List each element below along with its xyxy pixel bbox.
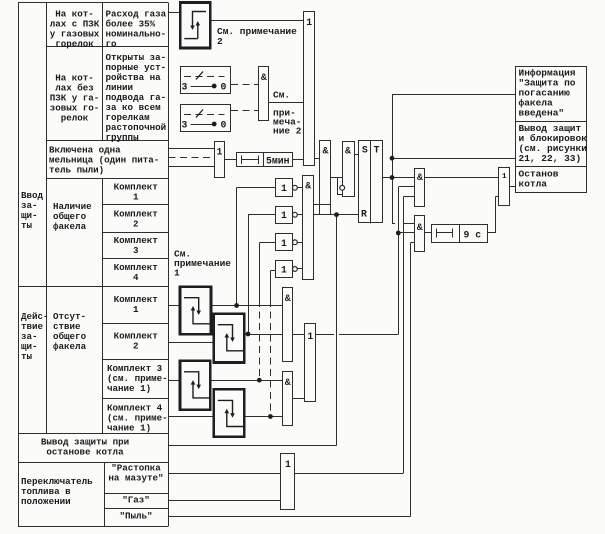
- svg-text:факела: факела: [53, 341, 87, 352]
- svg-text:чание 1): чание 1): [107, 383, 151, 394]
- svg-text:введена": введена": [519, 108, 565, 119]
- svg-text:1: 1: [281, 210, 287, 221]
- svg-text:чание 1): чание 1): [107, 423, 151, 434]
- svg-text:ние 2: ние 2: [273, 126, 302, 137]
- svg-text:&: &: [261, 72, 267, 83]
- svg-text:1: 1: [306, 17, 312, 28]
- svg-text:тель пыли): тель пыли): [49, 164, 104, 175]
- svg-text:ты: ты: [21, 220, 33, 231]
- svg-text:горелок: горелок: [55, 38, 94, 49]
- svg-text:T: T: [374, 145, 380, 156]
- svg-text:1: 1: [133, 191, 139, 202]
- svg-text:&: &: [305, 181, 311, 192]
- svg-text:"Газ": "Газ": [122, 495, 150, 506]
- svg-text:1: 1: [285, 459, 291, 470]
- svg-text:1: 1: [502, 173, 507, 181]
- svg-text:останове котла: останове котла: [46, 446, 124, 457]
- svg-text:3: 3: [182, 120, 188, 131]
- svg-text:группы: группы: [106, 132, 140, 143]
- svg-text:положении: положении: [21, 496, 71, 507]
- svg-text:на мазуте": на мазуте": [108, 473, 163, 484]
- svg-text:&: &: [345, 146, 351, 157]
- svg-text:1: 1: [281, 238, 287, 249]
- svg-text:9 с: 9 с: [464, 229, 482, 240]
- svg-text:ты: ты: [21, 351, 33, 362]
- svg-text:1: 1: [133, 304, 139, 315]
- svg-text:4: 4: [133, 272, 139, 283]
- svg-text:факела: факела: [53, 221, 87, 232]
- svg-text:3: 3: [133, 245, 139, 256]
- svg-text:&: &: [417, 172, 423, 183]
- svg-text:21, 22, 33): 21, 22, 33): [519, 153, 582, 164]
- svg-text:&: &: [285, 293, 291, 304]
- svg-text:1: 1: [307, 331, 313, 342]
- svg-text:2: 2: [217, 36, 223, 47]
- svg-text:котла: котла: [519, 179, 548, 190]
- svg-text:1: 1: [281, 265, 287, 276]
- svg-text:&: &: [322, 146, 328, 157]
- svg-text:2: 2: [133, 341, 139, 352]
- svg-text:См. примечание: См. примечание: [217, 26, 297, 37]
- svg-text:релок: релок: [61, 113, 89, 124]
- svg-text:3: 3: [182, 82, 188, 93]
- svg-text:S: S: [362, 145, 368, 156]
- svg-text:&: &: [285, 377, 291, 388]
- svg-text:"Пыль": "Пыль": [119, 511, 152, 522]
- svg-text:См.: См.: [273, 90, 290, 101]
- svg-text:2: 2: [133, 218, 139, 229]
- svg-text:1: 1: [281, 183, 287, 194]
- svg-text:го: го: [106, 38, 118, 49]
- svg-text:0: 0: [221, 120, 227, 131]
- svg-text:1: 1: [174, 267, 180, 278]
- svg-text:1: 1: [216, 146, 222, 157]
- svg-text:&: &: [417, 222, 423, 233]
- svg-text:примечание: примечание: [174, 258, 231, 269]
- svg-text:0: 0: [221, 82, 227, 93]
- svg-text:R: R: [361, 209, 367, 220]
- svg-text:5мин: 5мин: [266, 155, 290, 166]
